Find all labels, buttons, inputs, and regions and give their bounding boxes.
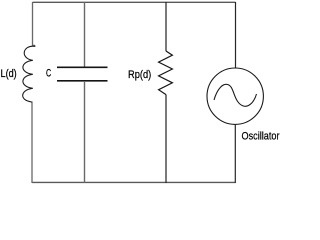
wire top bus bbox=[33, 1, 236, 3]
label Rp(d) bbox=[128, 69, 151, 81]
oscillator source body bbox=[207, 68, 263, 124]
wire resistor branch lower segment bbox=[165, 95, 167, 183]
resistor Rp(d) zigzag bbox=[159, 51, 173, 95]
wire left branch lower segment bbox=[31, 102, 33, 184]
wire capacitor branch lower segment bbox=[84, 81, 86, 183]
label Oscillator bbox=[242, 131, 280, 143]
label C bbox=[46, 68, 51, 80]
wire left branch upper segment bbox=[33, 2, 35, 45]
wire right branch upper segment bbox=[235, 2, 237, 68]
svg-text:L(d): L(d) bbox=[1, 68, 17, 80]
svg-text:Oscillator: Oscillator bbox=[242, 131, 280, 143]
wire right branch lower segment bbox=[234, 124, 236, 183]
label L(d) bbox=[1, 68, 17, 80]
capacitor C top plate bbox=[57, 66, 108, 68]
oscillator sine waveform bbox=[214, 84, 257, 106]
inductor L(d) bbox=[23, 45, 35, 103]
wire resistor branch upper segment bbox=[165, 2, 167, 51]
capacitor C bottom plate bbox=[57, 80, 108, 82]
wire capacitor branch upper segment bbox=[84, 2, 86, 67]
wire bottom bus bbox=[32, 181, 236, 183]
svg-text:C: C bbox=[46, 68, 51, 80]
svg-text:Rp(d): Rp(d) bbox=[128, 69, 151, 81]
